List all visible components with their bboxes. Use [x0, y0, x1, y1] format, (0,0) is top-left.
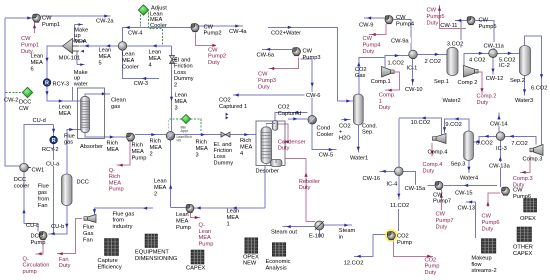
svg-text:IC-3: IC-3 — [496, 146, 507, 152]
svg-text:Capture: Capture — [98, 258, 118, 264]
svg-text:Comp 2: Comp 2 — [458, 80, 478, 86]
svg-text:CW-2: CW-2 — [4, 98, 18, 104]
svg-text:Sep.: Sep. — [362, 130, 374, 136]
svg-text:Flue: Flue — [83, 225, 94, 231]
svg-text:Lean: Lean — [199, 229, 212, 235]
svg-text:MEA: MEA — [154, 185, 167, 191]
svg-text:MEA: MEA — [227, 215, 240, 221]
svg-text:CW: CW — [208, 48, 218, 54]
svg-text:CW: CW — [479, 18, 489, 24]
svg-text:Pump: Pump — [109, 187, 124, 193]
svg-text:CW: CW — [396, 15, 406, 21]
svg-text:Pump7: Pump7 — [436, 218, 454, 224]
svg-text:water: water — [73, 82, 88, 88]
svg-text:CAPEX: CAPEX — [186, 266, 205, 272]
svg-text:Comp.: Comp. — [379, 93, 396, 99]
svg-text:from: from — [38, 197, 50, 203]
svg-text:Water1: Water1 — [350, 155, 368, 161]
svg-text:MEA: MEA — [109, 180, 122, 186]
svg-text:Pump: Pump — [132, 155, 147, 161]
svg-text:CW: CW — [363, 36, 373, 42]
svg-text:Cooler: Cooler — [317, 132, 334, 138]
svg-text:DIMENSIONING: DIMENSIONING — [135, 256, 177, 262]
svg-text:3.CO2: 3.CO2 — [447, 41, 463, 47]
svg-text:IC-4: IC-4 — [387, 181, 398, 187]
svg-text:streams-2: streams-2 — [471, 268, 496, 274]
svg-text:Lean: Lean — [149, 50, 162, 56]
svg-text:2: 2 — [174, 82, 177, 88]
svg-text:Lean: Lean — [122, 52, 135, 58]
svg-text:1.CO2: 1.CO2 — [388, 60, 404, 66]
svg-text:Pump1: Pump1 — [21, 42, 39, 48]
svg-text:Q-: Q- — [199, 223, 205, 229]
svg-text:Rich: Rich — [107, 141, 118, 147]
svg-text:Duty: Duty — [482, 226, 494, 232]
svg-text:Rich: Rich — [240, 138, 251, 144]
svg-text:CW-11: CW-11 — [440, 23, 457, 29]
svg-text:Dummy: Dummy — [214, 160, 234, 166]
svg-text:CO2: CO2 — [425, 258, 437, 264]
svg-text:MEA: MEA — [74, 39, 87, 45]
svg-text:Comp.3: Comp.3 — [513, 176, 533, 182]
svg-text:1: 1 — [379, 99, 382, 105]
svg-text:Comp.2: Comp.2 — [477, 94, 497, 100]
svg-text:Q-: Q- — [23, 257, 29, 263]
svg-text:Loss: Loss — [214, 154, 226, 160]
svg-text:MEA: MEA — [99, 54, 112, 60]
svg-text:Appr: Appr — [181, 129, 189, 133]
svg-text:Flue: Flue — [38, 184, 49, 190]
svg-text:8.CO2: 8.CO2 — [476, 141, 492, 147]
svg-text:IC-2: IC-2 — [499, 63, 510, 69]
svg-text:pump: pump — [23, 269, 37, 275]
svg-text:CO2: CO2 — [355, 67, 367, 73]
svg-text:CW-15: CW-15 — [455, 190, 473, 196]
svg-text:5: 5 — [99, 60, 102, 66]
svg-text:Flue gas: Flue gas — [113, 212, 135, 218]
svg-text:Duty: Duty — [278, 146, 290, 152]
svg-text:12.CO2: 12.CO2 — [344, 260, 364, 266]
svg-text:in: in — [339, 234, 343, 240]
svg-text:Pump1: Pump1 — [42, 22, 60, 28]
svg-text:CW: CW — [427, 8, 437, 14]
svg-text:Comp.3: Comp.3 — [523, 157, 543, 163]
svg-text:CW-13a: CW-13a — [489, 163, 511, 169]
svg-text:H2O: H2O — [339, 136, 351, 142]
svg-text:CW-2a: CW-2a — [96, 19, 114, 25]
svg-text:CO2+Water: CO2+Water — [271, 30, 301, 36]
svg-text:Comp.4: Comp.4 — [423, 162, 443, 168]
svg-text:Reboiler: Reboiler — [299, 179, 320, 185]
svg-text:Steam out: Steam out — [271, 229, 297, 235]
svg-text:MEA: MEA — [150, 145, 163, 151]
svg-text:MEA: MEA — [175, 99, 188, 105]
svg-text:Cooler: Cooler — [150, 23, 167, 29]
svg-text:Pump6: Pump6 — [482, 220, 500, 226]
svg-text:11.CO2: 11.CO2 — [390, 203, 409, 209]
svg-text:Lean: Lean — [99, 48, 112, 54]
svg-text:10.CO2: 10.CO2 — [411, 120, 431, 126]
svg-text:6: 6 — [31, 66, 34, 72]
svg-text:CW-12: CW-12 — [486, 76, 504, 82]
svg-text:Sep.3: Sep.3 — [451, 161, 466, 167]
svg-text:Analysis: Analysis — [266, 265, 287, 271]
svg-text:Desorber: Desorber — [256, 168, 279, 174]
svg-text:Pump4: Pump4 — [396, 21, 414, 27]
svg-text:7.CO2: 7.CO2 — [511, 141, 527, 147]
svg-text:MEA: MEA — [149, 56, 162, 62]
svg-text:HX: HX — [177, 139, 182, 143]
svg-text:RCY-2: RCY-2 — [42, 147, 59, 153]
svg-text:CW-3: CW-3 — [134, 81, 148, 87]
svg-text:Duty: Duty — [363, 49, 375, 55]
svg-text:MEA: MEA — [199, 235, 212, 241]
svg-text:Rich: Rich — [196, 140, 207, 146]
svg-text:Duty: Duty — [423, 168, 435, 174]
svg-text:IC-1: IC-1 — [407, 65, 418, 71]
svg-text:DCC: DCC — [31, 234, 43, 240]
svg-text:Pump5: Pump5 — [479, 24, 497, 30]
svg-text:MEA: MEA — [107, 147, 120, 153]
svg-text:CW: CW — [258, 72, 268, 78]
svg-text:Dummy: Dummy — [174, 76, 194, 82]
svg-text:Lean: Lean — [59, 105, 72, 111]
svg-text:CW-5: CW-5 — [319, 153, 333, 159]
svg-text:Captured 1: Captured 1 — [219, 104, 247, 110]
svg-text:CU-b: CU-b — [51, 224, 64, 230]
svg-text:3: 3 — [175, 105, 178, 111]
svg-text:Loss: Loss — [174, 70, 186, 76]
svg-text:R: R — [45, 81, 49, 87]
svg-text:CW1: CW1 — [32, 168, 45, 174]
svg-text:CW-14: CW-14 — [490, 121, 508, 127]
svg-text:Cond: Cond — [317, 126, 331, 132]
svg-text:Rich: Rich — [132, 143, 143, 149]
svg-text:CW-9: CW-9 — [359, 22, 373, 28]
svg-text:Duty: Duty — [379, 105, 391, 111]
svg-text:Makeup: Makeup — [471, 256, 491, 262]
svg-text:Captured: Captured — [278, 111, 301, 117]
svg-text:R: R — [52, 138, 56, 144]
svg-text:Pump: Pump — [425, 264, 440, 270]
svg-text:Pump: Pump — [31, 240, 46, 246]
svg-text:4: 4 — [149, 62, 152, 68]
svg-text:CU-a: CU-a — [46, 161, 60, 167]
svg-text:Water4: Water4 — [460, 175, 478, 181]
svg-text:Pump3: Pump3 — [258, 78, 276, 84]
svg-text:Rich: Rich — [150, 139, 161, 145]
svg-text:Gas: Gas — [83, 231, 94, 237]
svg-text:Rich: Rich — [109, 174, 120, 180]
svg-text:Friction: Friction — [174, 64, 193, 70]
svg-text:Economic: Economic — [266, 259, 291, 265]
svg-text:Pump7: Pump7 — [433, 199, 451, 205]
svg-text:gas: gas — [38, 190, 47, 196]
svg-text:RCY-3: RCY-3 — [53, 82, 70, 88]
svg-text:EI. and: EI. and — [214, 142, 232, 148]
svg-text:OPEX: OPEX — [520, 216, 536, 222]
svg-text:Fan: Fan — [83, 237, 93, 243]
svg-text:cooler: cooler — [14, 183, 30, 189]
svg-text:1: 1 — [227, 221, 230, 227]
svg-text:from: from — [113, 218, 125, 224]
svg-text:Lean: Lean — [154, 179, 167, 185]
svg-text:CO2: CO2 — [219, 98, 231, 104]
svg-text:CW: CW — [42, 16, 52, 22]
svg-text:Duty: Duty — [427, 20, 439, 26]
svg-text:Comp.1: Comp.1 — [371, 79, 391, 85]
svg-text:Sep.1: Sep.1 — [434, 79, 449, 85]
svg-text:MIX-101: MIX-101 — [59, 56, 81, 62]
svg-text:Duty: Duty — [258, 84, 270, 90]
svg-text:CW: CW — [482, 214, 492, 220]
svg-text:Circulation: Circulation — [23, 263, 50, 269]
svg-text:CW-11a: CW-11a — [484, 43, 505, 49]
svg-text:Pump4: Pump4 — [363, 42, 381, 48]
svg-text:CW: CW — [19, 106, 29, 112]
svg-text:Pump2: Pump2 — [208, 54, 226, 60]
svg-text:2: 2 — [154, 191, 157, 197]
svg-text:Efficiency: Efficiency — [98, 264, 122, 270]
svg-text:MEA: MEA — [196, 146, 209, 152]
svg-text:Fan: Fan — [38, 203, 48, 209]
svg-text:MEA: MEA — [176, 218, 189, 224]
svg-text:Lean: Lean — [175, 93, 188, 99]
svg-text:MEA: MEA — [59, 111, 72, 117]
svg-text:6.CO2: 6.CO2 — [531, 85, 547, 91]
svg-text:DCC: DCC — [14, 177, 26, 183]
svg-text:Friction: Friction — [214, 148, 233, 154]
svg-text:EI and: EI and — [174, 58, 190, 64]
svg-text:Absorber: Absorber — [80, 144, 103, 150]
svg-text:Lean: Lean — [227, 209, 240, 215]
svg-text:CW: CW — [21, 36, 31, 42]
svg-text:2: 2 — [150, 151, 153, 157]
svg-text:Duty: Duty — [299, 185, 311, 191]
svg-text:CW: CW — [513, 188, 523, 194]
svg-text:Duty: Duty — [208, 60, 220, 66]
svg-text:industry: industry — [113, 224, 133, 230]
svg-text:gas: gas — [64, 139, 73, 145]
svg-text:4: 4 — [240, 151, 243, 157]
svg-text:CO2: CO2 — [278, 105, 290, 111]
svg-text:DCC: DCC — [19, 100, 31, 106]
svg-text:Pump5: Pump5 — [427, 14, 445, 20]
svg-text:CW-10: CW-10 — [405, 87, 423, 93]
svg-text:3: 3 — [196, 152, 199, 158]
svg-text:Q-: Q- — [109, 168, 115, 174]
svg-text:Pump: Pump — [176, 225, 191, 231]
svg-text:EQUIPMENT: EQUIPMENT — [135, 250, 169, 256]
svg-text:CW: CW — [303, 49, 313, 55]
svg-text:Steam: Steam — [339, 228, 356, 234]
svg-text:OTHER: OTHER — [513, 245, 533, 251]
svg-text:DCC: DCC — [77, 180, 89, 186]
svg-text:Pump6: Pump6 — [513, 194, 531, 200]
svg-text:OPEX: OPEX — [243, 255, 259, 261]
svg-text:9.CO2: 9.CO2 — [445, 122, 461, 128]
svg-text:CW-6a: CW-6a — [257, 53, 275, 59]
svg-text:NEW: NEW — [243, 261, 257, 267]
svg-text:Cooler: Cooler — [122, 64, 139, 70]
svg-text:Gas: Gas — [355, 73, 366, 79]
svg-text:Lean: Lean — [31, 54, 44, 60]
svg-text:Pump3: Pump3 — [303, 55, 321, 61]
svg-text:CW-6: CW-6 — [306, 93, 320, 99]
svg-text:Pump2: Pump2 — [204, 31, 222, 37]
svg-text:Lean: Lean — [176, 212, 189, 218]
svg-text:Duty: Duty — [425, 270, 437, 276]
svg-text:Water2: Water2 — [443, 98, 461, 104]
svg-text:Duty: Duty — [477, 100, 489, 106]
svg-text:Duty: Duty — [436, 224, 448, 230]
svg-text:CW: CW — [433, 193, 443, 199]
svg-text:MEA: MEA — [31, 60, 44, 66]
svg-text:E-100: E-100 — [309, 233, 324, 239]
svg-text:CW-4: CW-4 — [128, 31, 142, 37]
svg-text:CAPEX: CAPEX — [513, 251, 532, 257]
svg-text:CO2: CO2 — [397, 234, 409, 240]
svg-text:Water3: Water3 — [515, 98, 533, 104]
svg-text:MEA: MEA — [122, 58, 135, 64]
svg-text:MEA: MEA — [132, 149, 145, 155]
svg-text:Pump: Pump — [397, 240, 412, 246]
svg-text:2 CO2: 2 CO2 — [425, 59, 441, 65]
svg-text:Pump: Pump — [199, 241, 214, 247]
svg-text:CW-16: CW-16 — [363, 176, 381, 182]
svg-text:CW: CW — [436, 212, 446, 218]
svg-text:4 CO2: 4 CO2 — [469, 58, 485, 64]
svg-text:CW-4a: CW-4a — [229, 29, 247, 35]
svg-text:Sep.2: Sep.2 — [510, 78, 525, 84]
svg-text:Cond.: Cond. — [362, 123, 378, 129]
svg-text:CU-c: CU-c — [26, 223, 39, 229]
svg-text:gas: gas — [111, 104, 120, 110]
svg-text:Clean: Clean — [111, 98, 126, 104]
svg-text:Comp.4: Comp.4 — [428, 150, 448, 156]
svg-text:MEA: MEA — [240, 144, 253, 150]
svg-text:CU-d: CU-d — [33, 118, 46, 124]
svg-text:flow: flow — [471, 262, 482, 268]
svg-text:CW-9a: CW-9a — [391, 39, 409, 45]
svg-text:CW-13: CW-13 — [458, 206, 476, 212]
svg-text:CW-15a: CW-15a — [405, 186, 427, 192]
svg-text:Condenser: Condenser — [278, 140, 306, 146]
svg-text:Duty: Duty — [59, 263, 71, 269]
svg-text:Fan: Fan — [59, 257, 69, 263]
